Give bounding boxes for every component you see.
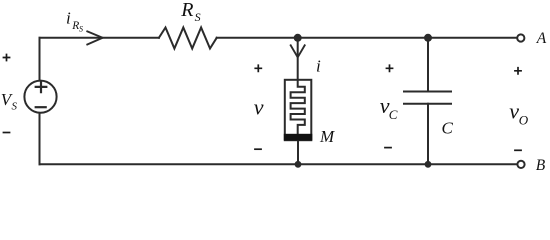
svg-text:i: i	[316, 57, 321, 76]
svg-text:v: v	[254, 95, 264, 120]
svg-text:C: C	[442, 119, 454, 138]
svg-text:S: S	[12, 101, 18, 113]
svg-text:B: B	[536, 157, 546, 174]
svg-text:A: A	[536, 30, 547, 47]
svg-text:M: M	[319, 127, 335, 146]
svg-text:i: i	[66, 9, 71, 28]
svg-text:S: S	[195, 10, 201, 24]
svg-text:R: R	[180, 0, 193, 21]
svg-text:v: v	[509, 98, 519, 123]
svg-text:S: S	[79, 25, 83, 34]
svg-text:C: C	[389, 107, 398, 122]
svg-text:O: O	[519, 113, 529, 128]
